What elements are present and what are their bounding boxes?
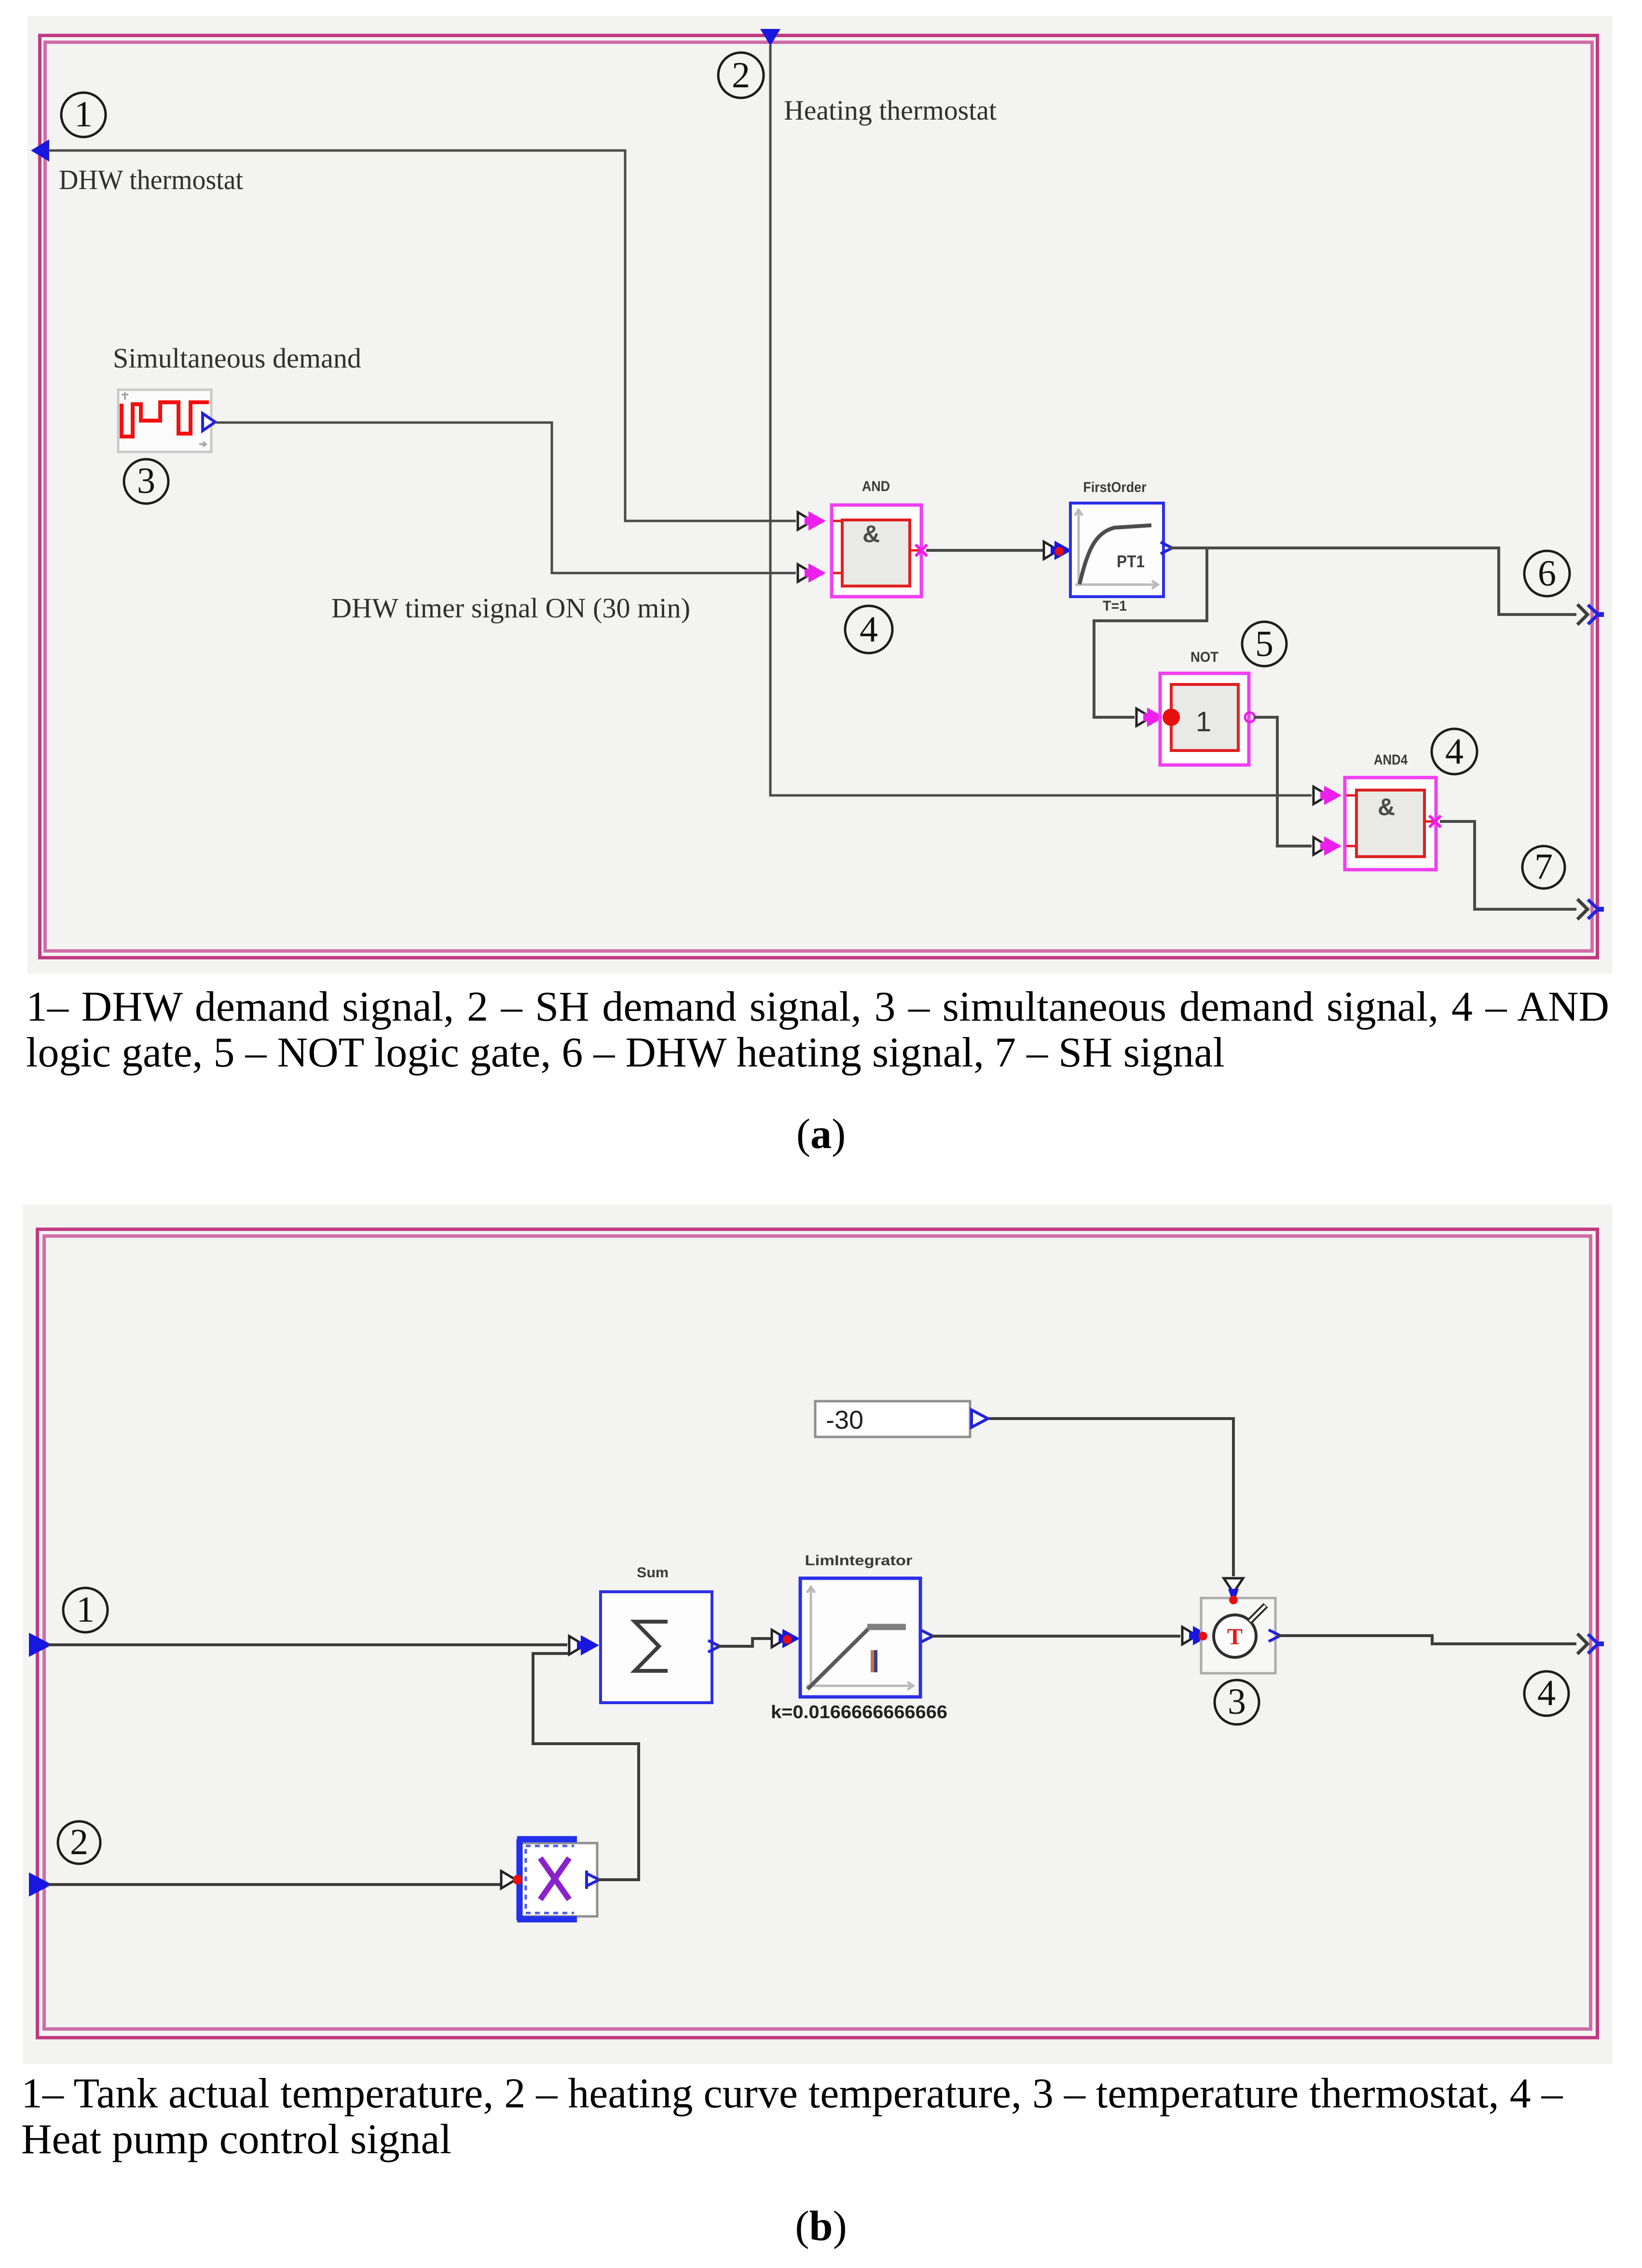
FirstOrder block (1070, 503, 1163, 597)
node circle 5 (1242, 622, 1286, 666)
svg-text:DHW timer signal ON (30 min): DHW timer signal ON (30 min) (331, 592, 690, 624)
input connector 2 (top border) (760, 29, 780, 46)
AND gate block (832, 505, 921, 597)
label Simultaneous demand (113, 342, 361, 374)
constant -30 output port (972, 1410, 988, 1427)
svg-text:FirstOrder: FirstOrder (1083, 479, 1147, 495)
svg-text:-30: -30 (826, 1406, 863, 1435)
svg-text:T=1: T=1 (1103, 598, 1127, 614)
label Sum (637, 1565, 669, 1581)
label DHW timer signal ON (30 min) (331, 592, 690, 624)
svg-text:2: 2 (732, 55, 750, 96)
node circle 4 (845, 606, 892, 653)
wire LimIntegrator to thermostat (930, 1635, 1180, 1638)
LimIntegrator input port (772, 1629, 800, 1648)
AND4 input port 1 (1314, 786, 1341, 805)
label AND4 (1374, 752, 1408, 768)
LimIntegrator block (800, 1578, 920, 1697)
svg-text:2: 2 (70, 1822, 88, 1862)
FirstOrder output port (1161, 542, 1172, 554)
node circle 6 (1524, 551, 1570, 596)
label k value (771, 1702, 947, 1722)
product input port (501, 1871, 516, 1888)
label T=1 (1103, 598, 1127, 614)
wire product to Sum input (533, 1653, 639, 1880)
input connector 2 (left border) (29, 1872, 52, 1897)
svg-text:1: 1 (1196, 706, 1211, 738)
thermostat left input port (1182, 1626, 1210, 1645)
wire Sum to LimIntegrator (717, 1639, 772, 1646)
node circle 4c (1524, 1671, 1569, 1716)
wire DHW thermostat to AND in1 (49, 150, 796, 521)
LimIntegrator output port (921, 1630, 933, 1642)
pulse source output port (203, 413, 215, 431)
AND4 output marker (1429, 816, 1441, 827)
Sum block (601, 1592, 712, 1703)
frame outer line B (38, 1230, 1598, 2038)
wire heating thermostat to AND4 in1 (770, 45, 1312, 795)
node circle 7 (1522, 846, 1565, 888)
label (a) (0, 1111, 1642, 1157)
node circle 3 (124, 459, 168, 504)
svg-text:7: 7 (1534, 847, 1553, 887)
label NOT (1190, 649, 1218, 665)
thermostat output port (1269, 1630, 1280, 1641)
diagram canvas A (27, 16, 1612, 973)
label LimIntegrator (805, 1553, 913, 1569)
svg-text:4: 4 (860, 609, 878, 650)
output chevron 4 (1577, 1634, 1604, 1654)
AND gate output marker (916, 545, 927, 556)
svg-text:Sum: Sum (637, 1565, 669, 1581)
diagram canvas B (23, 1204, 1612, 2064)
thermostat block (1199, 1596, 1275, 1673)
Sum output port (708, 1640, 720, 1652)
svg-text:&: & (1378, 793, 1395, 820)
svg-text:AND4: AND4 (1374, 752, 1408, 768)
svg-text:AND: AND (862, 478, 890, 494)
svg-text:5: 5 (1255, 624, 1273, 664)
node circle 1 (61, 93, 106, 137)
output chevron 7 (1577, 899, 1604, 919)
AND4 input port 2 (1314, 836, 1341, 856)
svg-text:4: 4 (1445, 731, 1464, 772)
label (b) (0, 2203, 1642, 2249)
product output port (587, 1871, 599, 1889)
svg-text:1: 1 (76, 1589, 95, 1630)
label AND (862, 478, 890, 494)
frame inner line A (45, 42, 1592, 951)
constant -30 block (815, 1401, 970, 1437)
input connector 1 (left border) (29, 1633, 52, 1657)
svg-text:LimIntegrator: LimIntegrator (805, 1553, 913, 1569)
pulse source block (118, 390, 211, 452)
node circle 1b (63, 1588, 108, 1632)
output chevron 6 (1577, 604, 1604, 625)
AND gate input port 2 (798, 563, 826, 583)
svg-text:Simultaneous demand: Simultaneous demand (113, 342, 361, 374)
node circle 3b (1215, 1680, 1259, 1724)
svg-text:&: & (862, 520, 880, 547)
wire pulse source to AND in2 (216, 423, 796, 573)
node circle 2b (58, 1821, 100, 1864)
frame outer line A (40, 36, 1598, 958)
wire input1 to Sum (48, 1643, 567, 1646)
NOT gate input port (1136, 708, 1164, 727)
AND4 gate block (1345, 778, 1436, 870)
wire input2 to product (48, 1883, 500, 1886)
label DHW thermostat (59, 164, 243, 195)
svg-text:1: 1 (74, 94, 93, 135)
svg-text:3: 3 (137, 461, 155, 501)
wire FirstOrder to output 6 (1170, 548, 1576, 615)
wire branch to NOT gate (1094, 548, 1207, 717)
svg-text:T: T (1227, 1624, 1243, 1650)
label Heating thermostat (784, 95, 997, 126)
wire AND4 to output 7 (1440, 821, 1576, 909)
caption B (21, 2071, 1613, 2162)
wire NOT to AND4 in2 (1254, 717, 1312, 846)
svg-text:6: 6 (1538, 553, 1556, 594)
wire AND to FirstOrder (926, 549, 1043, 552)
node circle 2 (718, 53, 764, 98)
frame inner line B (44, 1236, 1591, 2029)
product block (513, 1839, 597, 1920)
wire -30 to thermostat top (989, 1419, 1233, 1576)
svg-text:4: 4 (1537, 1673, 1556, 1713)
FirstOrder input port (1044, 541, 1072, 560)
NOT gate output marker (1245, 712, 1255, 722)
svg-text:PT1: PT1 (1117, 552, 1145, 571)
svg-text:k=0.0166666666666: k=0.0166666666666 (771, 1702, 947, 1722)
output connector 1 (left border) (31, 139, 49, 162)
node circle 4b (1432, 729, 1477, 774)
svg-text:3: 3 (1228, 1681, 1246, 1722)
svg-text:NOT: NOT (1190, 649, 1218, 665)
Sum input port (569, 1635, 599, 1655)
svg-text:Heating thermostat: Heating thermostat (784, 95, 997, 126)
thermostat top input port (1224, 1578, 1243, 1604)
caption A (26, 984, 1609, 1076)
wire thermostat to output 4 (1278, 1636, 1576, 1644)
label FirstOrder (1083, 479, 1147, 495)
AND gate input port 1 (798, 511, 826, 531)
NOT gate block (1160, 673, 1249, 765)
svg-text:DHW thermostat: DHW thermostat (59, 164, 243, 195)
